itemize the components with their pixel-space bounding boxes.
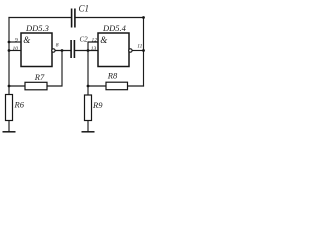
- node junction top right corner: [142, 16, 145, 19]
- svg-text:8: 8: [56, 43, 59, 49]
- svg-text:DD5.4: DD5.4: [102, 23, 127, 33]
- resistor R9: [85, 95, 92, 121]
- node junction right rail output2: [142, 49, 145, 52]
- label R9: [92, 100, 103, 110]
- label R8: [107, 71, 118, 81]
- ground right: [82, 131, 95, 133]
- ground left: [3, 131, 16, 133]
- node junction left rail pin9: [8, 41, 11, 44]
- label C1: [79, 4, 90, 14]
- wire DD5.3 output to C2: [55, 50, 71, 52]
- wire DD5.4 input tie stub pin 12: [88, 42, 98, 51]
- wire left rail vertical: [8, 18, 10, 95]
- pin 12: [92, 37, 98, 43]
- wire top-left horizontal to C1: [9, 17, 71, 19]
- wire R8 right riser to right rail: [128, 85, 144, 87]
- op-amp U1 DD5.3 gate box: [21, 33, 52, 67]
- wire right rail vertical: [143, 18, 145, 87]
- svg-text:13: 13: [91, 46, 97, 52]
- svg-text:R6: R6: [14, 100, 25, 110]
- label R7: [34, 72, 45, 82]
- op-amp U2 DD5.4 gate box: [98, 33, 129, 67]
- svg-text:12: 12: [92, 37, 98, 43]
- wire mid rail C2-node down to R9: [87, 51, 89, 96]
- svg-text:10: 10: [13, 46, 19, 52]
- wire DD5.3 input pin 10 stub: [9, 50, 21, 52]
- resistor R8: [106, 82, 128, 90]
- svg-text:R8: R8: [107, 71, 118, 81]
- svg-text:R7: R7: [34, 72, 45, 82]
- capacitor C2: [71, 40, 74, 58]
- label & of DD5.4: [100, 35, 107, 45]
- svg-text:9: 9: [15, 37, 18, 43]
- label R6: [14, 100, 25, 110]
- svg-text:C2: C2: [80, 36, 89, 44]
- label DD5.3: [25, 23, 49, 33]
- pin 9: [15, 37, 18, 43]
- node A junction output1-R7: [61, 49, 64, 52]
- wire R8 left link: [88, 85, 106, 87]
- node junction left rail pin10: [8, 49, 11, 52]
- wire R9 to ground: [87, 121, 89, 132]
- capacitor C1: [72, 9, 75, 28]
- svg-text:11: 11: [137, 43, 142, 49]
- resistor R7: [25, 82, 47, 90]
- pin 11: [137, 43, 142, 49]
- pin 8: [56, 43, 59, 49]
- svg-text:DD5.3: DD5.3: [25, 23, 49, 33]
- wire DD5.3 input pin 9 stub: [9, 41, 21, 43]
- DD5.4 output bubble: [129, 49, 132, 52]
- wire R6 to ground: [8, 121, 10, 132]
- label C2: [80, 36, 89, 44]
- wire R7 right riser to node A: [47, 51, 62, 87]
- wire R7 left link: [9, 85, 25, 87]
- node junction mid rail R8: [87, 85, 90, 88]
- svg-text:C1: C1: [79, 4, 90, 14]
- wire top-right horizontal from C1: [76, 17, 144, 19]
- label & of DD5.3: [23, 35, 30, 45]
- svg-text:&: &: [23, 35, 30, 45]
- label DD5.4: [102, 23, 127, 33]
- pin 10: [13, 46, 19, 52]
- resistor R6: [6, 95, 13, 121]
- wire DD5.4 output to right rail: [132, 50, 144, 52]
- svg-text:R9: R9: [92, 100, 103, 110]
- DD5.3 output bubble: [52, 49, 55, 52]
- node junction left rail R7: [8, 85, 11, 88]
- node B junction C2-DD5.4: [87, 49, 90, 52]
- svg-text:&: &: [100, 35, 107, 45]
- pin 13: [91, 46, 97, 52]
- wire C2 to DD5.4 input: [76, 50, 99, 52]
